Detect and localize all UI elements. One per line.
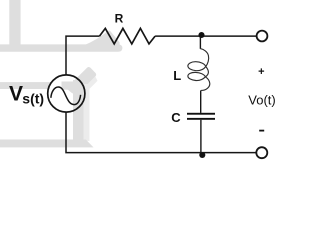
svg-text:s(t): s(t) <box>22 90 44 106</box>
watermark middle band <box>0 82 52 89</box>
wire capacitor to bottom node <box>200 120 202 153</box>
wire source bottom to bottom-left corner to bottom terminal <box>66 112 256 153</box>
node A junction dot top <box>198 32 204 38</box>
watermark band through circle <box>62 82 89 90</box>
wire inductor to capacitor <box>200 90 202 113</box>
wire top-left: corner to resistor <box>66 36 100 75</box>
watermark hump under resistor <box>83 30 120 48</box>
watermark stem light halo <box>84 84 90 141</box>
minus sign <box>259 130 264 132</box>
capacitor C1 top plate <box>187 113 215 115</box>
inductor L1 coil <box>188 49 210 91</box>
wire node to inductor <box>199 36 201 49</box>
watermark flag diagonal <box>67 67 97 95</box>
watermark lower band / foot <box>0 140 94 148</box>
top output terminal <box>257 31 268 42</box>
source circle white fill (masks band) <box>48 75 85 112</box>
watermark flag light edge <box>77 77 98 99</box>
watermark upper band <box>0 44 122 51</box>
svg-text:Vo(t): Vo(t) <box>248 92 275 107</box>
watermark top-left vertical bar <box>9 0 20 45</box>
svg-text:R: R <box>115 11 124 25</box>
svg-text:+: + <box>258 66 264 78</box>
sine wave inside source <box>51 87 81 105</box>
node B junction dot bottom <box>199 152 205 158</box>
capacitor C1 bottom plate <box>187 118 215 120</box>
watermark stem <box>73 80 84 141</box>
voltage source U1 circle <box>48 75 85 112</box>
wire resistor to top terminal <box>155 35 256 37</box>
bottom output terminal <box>256 147 267 158</box>
svg-text:V: V <box>9 82 23 105</box>
svg-text:C: C <box>171 110 181 125</box>
resistor R1 zigzag <box>100 28 156 44</box>
svg-text:L: L <box>173 68 181 83</box>
